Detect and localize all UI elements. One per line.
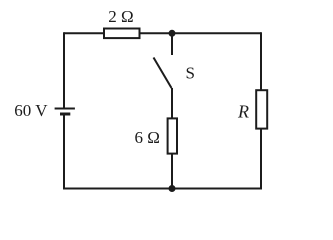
svg-text:60 V: 60 V	[14, 101, 48, 120]
svg-text:2 Ω: 2 Ω	[108, 7, 133, 26]
svg-text:S: S	[186, 64, 195, 83]
svg-text:R: R	[237, 102, 249, 122]
svg-text:6 Ω: 6 Ω	[135, 128, 160, 147]
